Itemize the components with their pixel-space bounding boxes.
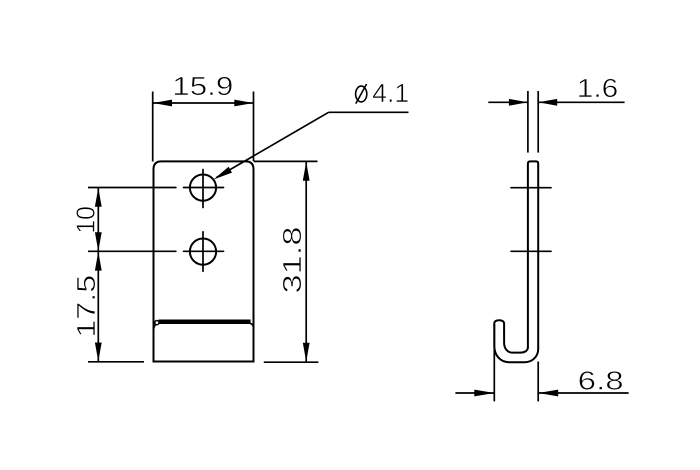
svg-text:6.8: 6.8 <box>578 366 624 396</box>
hole H2 centerline vertical <box>202 232 204 271</box>
dim 1.6 left extension line <box>527 91 529 153</box>
dim 31.8 dimension line <box>305 161 307 362</box>
dim 10 bottom arrowhead <box>95 232 102 251</box>
dim 15.9 right extension line <box>253 92 255 162</box>
dim 15.9 right arrowhead <box>234 100 253 107</box>
dim 6.8 left extension line (collinear with hook edge) <box>493 324 495 401</box>
dim 17.5 top arrowhead <box>95 252 102 271</box>
dim 15.9 left extension line <box>152 92 154 162</box>
dim 10 top arrowhead <box>95 188 102 207</box>
dim 10 top extension line <box>88 187 177 189</box>
front view plate outline <box>154 161 254 361</box>
hole H2 centerline horizontal <box>184 250 224 252</box>
dim 1.6 right extension line <box>537 91 539 153</box>
dim 10 bottom extension line <box>88 250 177 252</box>
dim 17.5 bottom arrowhead <box>95 343 102 362</box>
svg-text:31.8: 31.8 <box>277 227 307 294</box>
dim 1.6 left tail line <box>488 101 528 103</box>
dim 31.8 bottom arrowhead <box>303 343 310 362</box>
hole H1 centerline vertical <box>202 170 204 208</box>
leader arrowhead at hole H1 <box>214 167 233 180</box>
side view hole row tick upper <box>511 187 551 189</box>
dim 31.8 top arrowhead <box>303 162 310 181</box>
dim 6.8 right tail line <box>538 392 628 394</box>
dim 6.8 left arrowhead <box>474 390 494 397</box>
dim text diameter symbol <box>356 84 367 104</box>
dim 1.6 left arrowhead <box>509 99 528 106</box>
svg-text:15.9: 15.9 <box>172 71 233 101</box>
hook outer curve <box>494 326 538 363</box>
dim 15.9 left arrowhead <box>153 100 172 107</box>
bend line left tail <box>154 324 156 330</box>
bend line thick bar <box>159 319 251 324</box>
hook inner curve <box>504 332 528 353</box>
hole H1 centerline horizontal <box>184 187 224 189</box>
hole H2 circle <box>190 239 216 265</box>
dim 15.9 dimension line <box>153 102 254 104</box>
bend line right tail <box>251 324 254 329</box>
side view hole row tick lower <box>511 250 551 252</box>
svg-text:17.5: 17.5 <box>71 275 101 338</box>
dim 1.6 right arrowhead <box>538 99 557 106</box>
dim 31.8 top extension line <box>254 160 318 162</box>
dim 31.8 bottom extension line <box>264 361 319 363</box>
dim 10 and 17.5 dimension line <box>97 188 99 362</box>
leader shelf line for diameter callout <box>329 111 409 113</box>
svg-text:10: 10 <box>71 206 101 234</box>
side view strip outline with rounded top <box>528 161 538 348</box>
bend line left end curl <box>155 321 159 325</box>
dim 6.8 right arrowhead <box>538 390 558 397</box>
svg-text:4.1: 4.1 <box>372 78 409 108</box>
hole H1 circle <box>190 175 216 201</box>
dim 6.8 right extension line <box>537 362 539 402</box>
svg-text:1.6: 1.6 <box>577 73 619 103</box>
dim 17.5 bottom extension line <box>88 361 144 363</box>
dim 1.6 right tail line <box>538 101 624 103</box>
dim 6.8 left tail line <box>455 392 494 394</box>
leader slant line for diameter callout <box>217 112 329 177</box>
hook lip tip cap <box>494 320 504 331</box>
